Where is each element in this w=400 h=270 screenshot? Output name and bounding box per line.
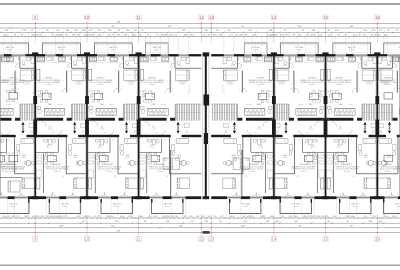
bayA bed <box>8 181 20 192</box>
top dimension chain 4 <box>0 35 400 37</box>
bayH tables <box>384 93 393 99</box>
unit bay G (translated copy) <box>326 37 378 217</box>
joint blob upper <box>204 95 210 106</box>
bottom dimension chain 3 <box>0 227 400 229</box>
svg-text:.... ....: .... .... <box>199 245 204 247</box>
unit bay C <box>87 37 139 217</box>
unit bay B <box>35 37 87 217</box>
right edge cut line <box>399 56 400 196</box>
svg-text:15: 15 <box>323 237 328 242</box>
bayH counter <box>391 57 399 62</box>
grid line 15 <box>325 22 327 44</box>
bayA lower table <box>9 155 18 161</box>
svg-text:10: 10 <box>85 15 90 20</box>
bayA bedroom wall <box>0 177 22 179</box>
central joint wall <box>205 54 207 199</box>
svg-text:.... ....: .... .... <box>137 245 142 247</box>
bottom dimension chain 1 <box>0 217 400 219</box>
svg-text:21.24 m²: 21.24 m² <box>10 83 17 86</box>
svg-text:21.24 m²: 21.24 m² <box>385 170 392 173</box>
unit bay D (wide) <box>139 37 202 217</box>
party wall at x=377.3 <box>375 57 377 197</box>
svg-text:21.24 m²: 21.24 m² <box>10 170 17 173</box>
svg-text:16: 16 <box>375 237 380 242</box>
bayA dining table <box>9 93 18 99</box>
top dimension chain 1 <box>0 23 400 25</box>
party wall at x=87.0 <box>85 57 87 197</box>
sheet border bottom <box>0 264 400 266</box>
svg-text:14: 14 <box>272 15 277 20</box>
right bays mirrored (E, F, H) <box>211 37 400 217</box>
grid line 12 <box>200 22 202 44</box>
central joint face lines <box>202 56 204 196</box>
unit bay A (cut at left edge) <box>0 37 35 217</box>
top dimension chain 2 <box>0 27 400 29</box>
bayA counter <box>2 57 10 62</box>
svg-text:15: 15 <box>323 15 328 20</box>
svg-text:10: 10 <box>85 237 90 242</box>
svg-text:13: 13 <box>209 237 214 242</box>
svg-text:.... ....: .... .... <box>324 245 329 247</box>
svg-text:14: 14 <box>272 237 277 242</box>
svg-text:13: 13 <box>209 15 214 20</box>
svg-text:11: 11 <box>136 15 141 20</box>
svg-text:16: 16 <box>375 15 380 20</box>
grid line 13 <box>210 22 212 44</box>
svg-text:12: 12 <box>199 237 204 242</box>
joint dim blob on bottom chain <box>203 231 210 234</box>
svg-text:.... ....: .... .... <box>209 245 214 247</box>
svg-text:.... ....: .... .... <box>272 245 277 247</box>
bottom dimension chain 2 <box>0 222 400 224</box>
svg-text:.... ....: .... .... <box>33 245 38 247</box>
bottom dimension chain 4 <box>0 231 400 233</box>
svg-text:21.24 m²: 21.24 m² <box>385 83 392 86</box>
top dimension chain 3 <box>0 31 400 33</box>
party wall at x=138.6 <box>136 57 138 197</box>
grid line 11 <box>138 22 140 44</box>
joint top cap <box>203 52 210 56</box>
svg-text:12: 12 <box>199 15 204 20</box>
svg-text:.... ....: .... .... <box>375 245 380 247</box>
joint bottom cap <box>203 196 210 199</box>
party wall at x=35.2 <box>33 57 35 197</box>
grid line 9 <box>34 22 36 44</box>
joint blob mid <box>204 133 208 144</box>
svg-text:11: 11 <box>136 237 141 242</box>
grid line 10 <box>86 22 88 44</box>
party wall at x=273.9 <box>272 57 274 197</box>
grid line 14 <box>273 22 275 44</box>
sheet border top <box>0 3 400 5</box>
left edge cut line <box>0 56 1 196</box>
grid line 16 <box>376 22 378 44</box>
party wall at x=325.5 <box>323 57 325 197</box>
svg-text:.... ....: .... .... <box>85 245 90 247</box>
